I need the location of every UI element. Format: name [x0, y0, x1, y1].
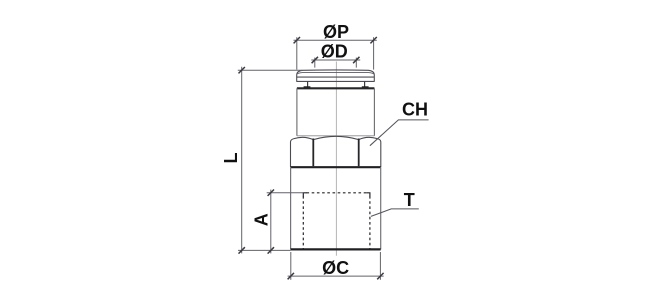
dimension A lines: [267, 190, 304, 254]
svg-text:ØP: ØP: [323, 22, 349, 42]
dimension A ticks: [268, 190, 274, 254]
svg-text:ØD: ØD: [321, 42, 348, 62]
centerline: [335, 62, 337, 256]
dimension ØC lines: [288, 252, 384, 280]
svg-text:CH: CH: [402, 100, 428, 120]
thread T dashed corner marks: [303, 193, 370, 197]
dimension ØP lines: [294, 37, 377, 69]
hex nut: [291, 136, 381, 167]
dimension ØC ticks: [288, 273, 384, 279]
label CH leader: [370, 120, 429, 146]
svg-text:A: A: [251, 213, 271, 226]
dimension ØD ticks: [312, 57, 360, 63]
lower cylinder body: [291, 167, 381, 249]
dimension ØD lines: [311, 58, 360, 68]
label T leader: [371, 209, 419, 217]
upper cylinder body: [297, 88, 375, 136]
svg-text:L: L: [221, 153, 241, 164]
collet neck: [308, 81, 365, 87]
dimension L ticks: [239, 67, 245, 254]
collet feet: [304, 86, 369, 88]
release button cap: [297, 70, 375, 82]
dimension L lines: [238, 67, 302, 254]
thread T dashed bore: [303, 193, 370, 249]
svg-text:T: T: [404, 190, 415, 210]
svg-text:ØC: ØC: [322, 258, 349, 278]
dimension ØP ticks: [294, 37, 377, 43]
